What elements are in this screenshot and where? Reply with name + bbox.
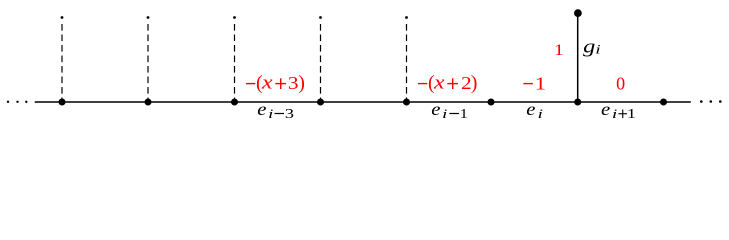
wire: dashed arm 3 — [234, 24, 236, 100]
svg-text:e: e — [601, 100, 611, 119]
svg-text:x: x — [433, 72, 445, 93]
svg-text:e: e — [526, 100, 536, 119]
node: vertex 6 — [488, 99, 495, 106]
right ellipsis — [700, 100, 722, 103]
svg-text:i: i — [442, 106, 448, 121]
wire: dashed arm 1 — [61, 24, 63, 100]
svg-text:1: 1 — [627, 107, 636, 121]
label: g_i — [583, 36, 601, 57]
label: e_{i-1} — [431, 100, 468, 121]
svg-text:i: i — [612, 106, 618, 121]
label: e_{i+1} — [601, 100, 636, 121]
svg-text:e: e — [257, 100, 267, 119]
svg-text:e: e — [431, 100, 441, 119]
node: top dot 2 — [147, 16, 150, 19]
label: weight -(x+3) — [246, 72, 305, 94]
svg-text:x: x — [261, 72, 273, 93]
svg-text:1: 1 — [554, 41, 564, 59]
svg-text:i: i — [268, 106, 274, 121]
svg-text:): ) — [298, 72, 305, 94]
node: vertex 8 — [660, 99, 667, 106]
node: vertex 4 — [317, 99, 324, 106]
svg-text:3: 3 — [285, 106, 294, 122]
node: vertex 3 — [231, 99, 238, 106]
wire: dashed arm 4 — [320, 24, 322, 100]
label: e_i — [526, 100, 543, 121]
svg-text:1: 1 — [460, 107, 468, 121]
label: weight 1 on g_i edge — [554, 41, 564, 59]
node: top dot 3 — [233, 16, 236, 19]
svg-text:): ) — [471, 72, 478, 94]
label: e_{i-3} — [257, 100, 294, 121]
label: weight -(x+2) — [418, 72, 477, 94]
label: weight -1 — [523, 74, 546, 93]
node: vertex 2 — [145, 99, 152, 106]
node: top dot 4 — [319, 16, 322, 19]
svg-text:1: 1 — [535, 74, 546, 93]
node: vertex 1 — [59, 99, 66, 106]
wire: solid arm to g_i node — [577, 14, 579, 102]
node: vertex 7 — [574, 99, 581, 106]
node: vertex 5 — [403, 99, 410, 106]
svg-text:3: 3 — [288, 74, 299, 94]
svg-text:g: g — [583, 36, 595, 56]
node: top dot 5 — [405, 16, 408, 19]
svg-text:i: i — [538, 106, 544, 121]
node: g_i top dot — [574, 9, 582, 17]
wire: dashed arm 2 — [147, 24, 149, 100]
svg-text:i: i — [595, 42, 601, 57]
wire: main horizontal chain — [35, 101, 691, 103]
wire: dashed arm 5 — [406, 24, 408, 100]
svg-text:0: 0 — [616, 73, 625, 93]
node: top dot 1 — [61, 16, 64, 19]
left ellipsis — [7, 101, 28, 103]
